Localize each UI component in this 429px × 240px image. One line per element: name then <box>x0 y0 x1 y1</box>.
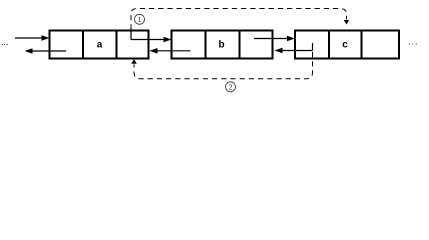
wire: B.next pointer to node C <box>254 36 295 42</box>
label 1 (circled) <box>135 14 145 24</box>
wire: A.prior pointer to previous node <box>25 48 67 54</box>
svg-text:...: ... <box>1 37 9 47</box>
svg-text:c: c <box>342 40 348 51</box>
svg-text:1: 1 <box>138 15 142 24</box>
wire: B.prior pointer to node A <box>150 48 191 54</box>
dashed wire 2: C.prior re-linked to node A <box>134 52 313 79</box>
svg-text:2: 2 <box>229 83 233 92</box>
svg-text:a: a <box>97 40 103 51</box>
svg-text:...: ... <box>408 37 419 47</box>
wire: C.prior pointer to node B <box>275 43 313 53</box>
dashed wire 1: A.next re-linked to node C <box>131 9 347 30</box>
node C box <box>295 31 399 59</box>
node A box <box>50 31 149 59</box>
wire: A.next pointer to node B <box>131 31 172 43</box>
wire: incoming next pointer into node A <box>15 35 50 41</box>
label 2 (circled) <box>226 82 236 92</box>
svg-text:b: b <box>218 40 224 51</box>
node B box <box>172 31 273 59</box>
